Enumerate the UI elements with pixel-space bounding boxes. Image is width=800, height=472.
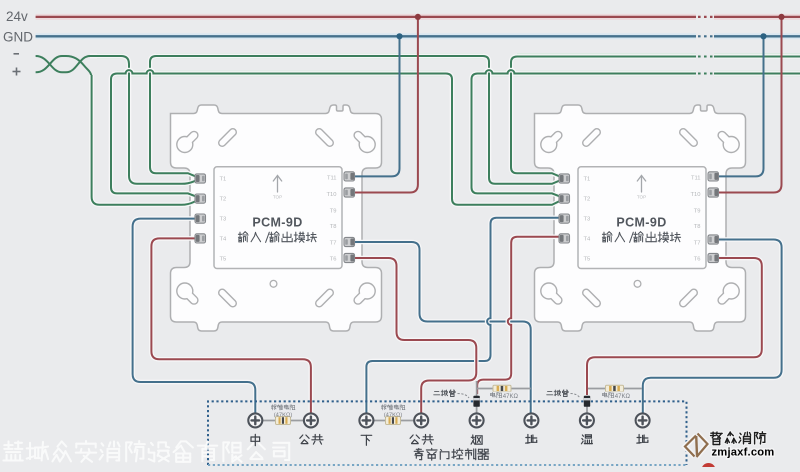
- wire loop- U2 T1 out to next: [511, 57, 800, 179]
- U1 label input/output module: [238, 232, 316, 243]
- label terminal 地: [526, 435, 537, 444]
- svg-text:T7: T7: [330, 240, 337, 246]
- svg-text:T7: T7: [694, 240, 701, 246]
- label minus: [14, 53, 20, 55]
- svg-text:PCM-9D: PCM-9D: [616, 216, 666, 230]
- U1 terminal T11: [344, 172, 355, 181]
- svg-text:(47KΩ): (47KΩ): [274, 413, 293, 419]
- mounting keyholes: [177, 135, 194, 152]
- svg-text:T2: T2: [220, 197, 227, 203]
- wire loop+ U1 T2 to U2 T2: [111, 70, 564, 205]
- module U2 front box: [578, 167, 706, 269]
- logo text halo: [711, 432, 766, 445]
- label terminal 公共: [410, 435, 433, 445]
- U2 terminal T10: [708, 188, 719, 197]
- svg-text:T1: T1: [584, 177, 591, 183]
- U2 terminal T3: [559, 214, 570, 223]
- svg-text:T1: T1: [220, 177, 227, 183]
- label terminal resistor: [381, 405, 405, 410]
- node GND junction 1: [396, 33, 402, 39]
- label terminal 烟: [471, 435, 482, 444]
- wire U1 T7 to terminal Di 1: [348, 242, 531, 414]
- svg-text:T3: T3: [220, 217, 227, 223]
- resistor R1 terminal 47K: [276, 417, 291, 425]
- svg-text:GND: GND: [3, 29, 33, 44]
- svg-text:T11: T11: [327, 176, 337, 182]
- label terminal 地: [637, 435, 648, 444]
- logo diamond icon: [685, 434, 708, 458]
- svg-text:T9: T9: [694, 208, 701, 214]
- wire U2 T10 to 24v bus: [713, 17, 782, 193]
- svg-text:TOP: TOP: [637, 195, 646, 200]
- U2 terminal T1: [559, 174, 570, 183]
- TOP arrow: [637, 176, 645, 193]
- wire R4 leads: [588, 388, 642, 390]
- TOP arrow: [273, 176, 281, 193]
- svg-text:T6: T6: [694, 256, 701, 262]
- label diode D1: [434, 390, 455, 397]
- wire loop+ in to U1 T2: [92, 75, 200, 205]
- resistor R2 terminal 47K: [386, 417, 401, 425]
- watermark company name: [3, 441, 289, 462]
- wire U1 T10 to 24v bus: [348, 17, 418, 193]
- wire loop+ U2 T2 out to next: [472, 70, 800, 198]
- module U2 PCM-9D backplate: [535, 105, 746, 331]
- label terminal 温: [581, 435, 592, 444]
- svg-text:T8: T8: [330, 224, 337, 230]
- svg-text:T5: T5: [220, 256, 227, 262]
- terminal Yan smoke: [470, 413, 484, 427]
- U1 terminal T7: [344, 237, 355, 246]
- diode D1 smoke input: [473, 396, 479, 407]
- wire U2 T11 to GND bus: [713, 36, 764, 176]
- label plus: [13, 68, 21, 76]
- wire U1 T11 to GND bus: [348, 36, 400, 176]
- U2 terminal T7: [708, 235, 719, 244]
- wire U1 T6 to terminal Gonggong 2: [348, 258, 476, 414]
- wire U1 T3 to terminal Zhong: [133, 219, 256, 414]
- U2 terminal T11: [708, 172, 719, 181]
- node 24v junction 1: [415, 14, 421, 20]
- terminal Gonggong 2: [414, 413, 428, 427]
- svg-text:T3: T3: [584, 217, 591, 223]
- U1 terminal T4: [195, 234, 206, 243]
- wire U2 T4 to diode D1 smoke line: [477, 237, 567, 394]
- label roller door controller: [414, 449, 489, 461]
- label terminal 下: [361, 435, 372, 445]
- logo text zhimiao xiaofang: [711, 432, 766, 445]
- wire Xia-Gonggong link: [373, 420, 414, 422]
- svg-text:24v: 24v: [6, 9, 28, 24]
- wire U1 T4 to terminal Gonggong 1: [151, 238, 311, 414]
- terminal Di ground 2: [636, 413, 650, 427]
- terminal Di ground 1: [524, 413, 538, 427]
- svg-text:T9: T9: [330, 208, 337, 214]
- module U1 front box: [214, 167, 342, 269]
- svg-text:T5: T5: [584, 256, 591, 262]
- svg-text:T6: T6: [330, 256, 337, 262]
- U1 terminal T1: [195, 174, 206, 183]
- U1 terminal T6: [344, 253, 355, 262]
- U2 terminal T2: [559, 194, 570, 203]
- wire loop- U1 T1 to U2 T1: [150, 56, 564, 184]
- U2 terminal T6: [708, 253, 719, 262]
- red badge partial: [702, 463, 716, 472]
- wire signal loop plus (twisted pair): [36, 56, 92, 79]
- svg-text:T8: T8: [694, 224, 701, 230]
- module U1 PCM-9D backplate: [171, 105, 382, 331]
- wire R3 leads: [477, 388, 531, 390]
- terminal Wen temp: [580, 413, 594, 427]
- mounting keyholes: [541, 135, 558, 152]
- svg-text:zmjaxf.com: zmjaxf.com: [712, 447, 775, 459]
- terminal Zhong: [248, 413, 262, 427]
- svg-text:47KΩ: 47KΩ: [615, 394, 631, 400]
- svg-text:T10: T10: [327, 192, 337, 198]
- label terminal 中: [251, 434, 260, 445]
- diode D2 temp input: [584, 396, 590, 407]
- svg-text:T4: T4: [584, 236, 592, 242]
- label terminal resistor: [271, 405, 295, 410]
- svg-text:(47KΩ): (47KΩ): [384, 413, 403, 419]
- label terminal 公共: [300, 435, 323, 445]
- resistor R3 47K smoke: [493, 385, 511, 392]
- node GND junction 2: [760, 33, 766, 39]
- svg-text:47KΩ: 47KΩ: [503, 394, 519, 400]
- wire GND bus: [36, 35, 800, 37]
- wire U2 T6 to diode D2 temp line: [587, 258, 762, 395]
- svg-text:T11: T11: [691, 176, 701, 182]
- U1 terminal T10: [344, 188, 355, 197]
- controller box (roller door controller): [208, 401, 687, 465]
- U1 terminal T3: [195, 214, 206, 223]
- wire diode D1 stub: [476, 381, 478, 414]
- resistor R4 47K temp: [606, 385, 624, 392]
- svg-text:T4: T4: [220, 236, 228, 242]
- terminal Xia: [359, 413, 373, 427]
- wire Zhong-Gonggong link: [262, 420, 304, 422]
- wire diode D2 stub: [586, 398, 588, 414]
- bus continuation dashes: [696, 10, 714, 80]
- wire 24v bus: [36, 16, 800, 18]
- wire U2 T7 to terminal Di 2: [643, 240, 782, 415]
- wire loop- in to U1 T1: [90, 56, 200, 184]
- U2 label input/output module: [602, 232, 680, 243]
- svg-text:PCM-9D: PCM-9D: [252, 216, 302, 230]
- label R3 resistor 47K: [491, 392, 502, 398]
- U2 terminal T4: [559, 234, 570, 243]
- U1 terminal T2: [195, 194, 206, 203]
- label diode D2: [547, 390, 568, 397]
- svg-text:T2: T2: [584, 197, 591, 203]
- label R4 resistor 47K: [603, 392, 614, 398]
- svg-text:TOP: TOP: [273, 195, 282, 200]
- wire signal loop minus (twisted pair): [36, 56, 90, 72]
- terminal Gonggong 1: [304, 413, 318, 427]
- wire U2 T3 to terminal Xia: [366, 218, 567, 414]
- svg-text:T10: T10: [691, 192, 701, 198]
- node 24v junction 2: [778, 14, 784, 20]
- bus halos: [36, 17, 800, 74]
